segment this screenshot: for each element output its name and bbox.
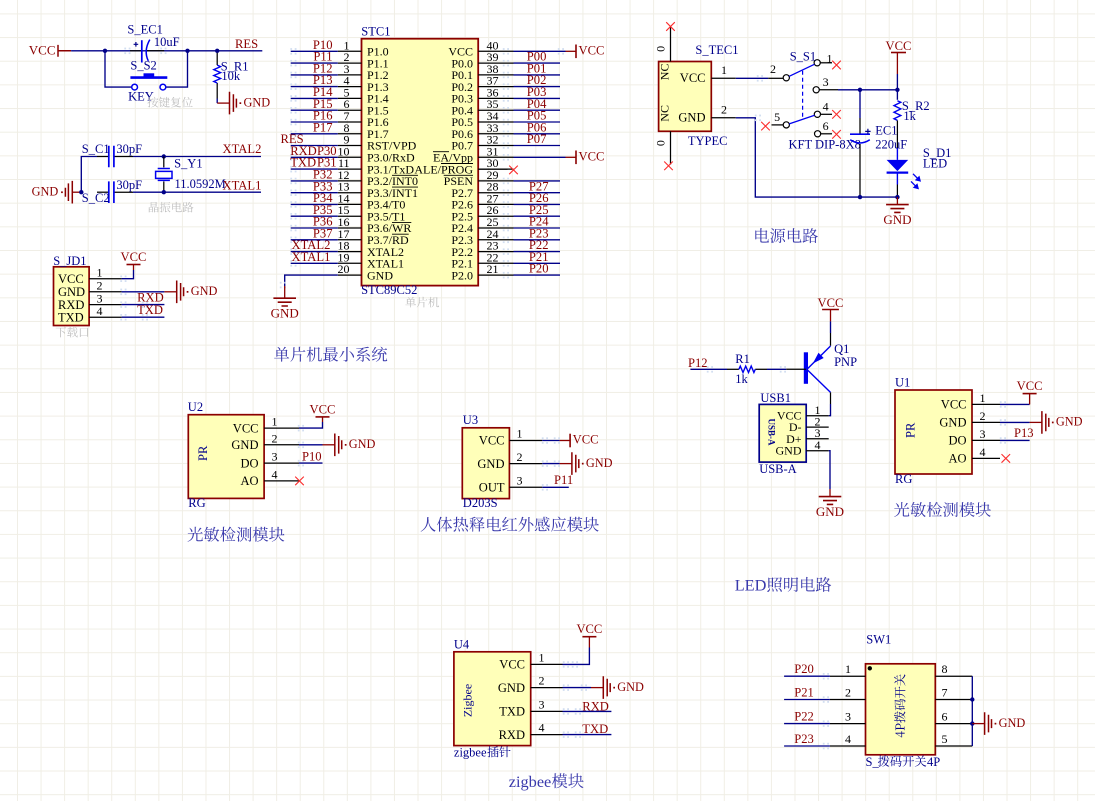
- svg-text:30pF: 30pF: [116, 178, 142, 192]
- junction gnd/C2: [79, 190, 83, 194]
- wire pin26: [503, 213, 560, 220]
- pin 33 P0.6: [451, 121, 513, 141]
- svg-text:TXD: TXD: [58, 310, 84, 324]
- pin 1 (SW1 left): [830, 662, 866, 676]
- pin 5 P1.4: [338, 85, 389, 105]
- junction SW1 pin7: [970, 697, 974, 701]
- ground GND (below S_R1): [217, 92, 270, 115]
- connector S_TEC1 TYPEC body: [659, 62, 712, 132]
- svg-text:10k: 10k: [221, 69, 241, 83]
- pin 1 VCC: [58, 266, 122, 286]
- svg-text:2: 2: [721, 103, 727, 117]
- pin 2 GND (TEC): [678, 103, 735, 125]
- pin 1 VCC (TEC): [680, 63, 736, 85]
- svg-text:DO: DO: [948, 434, 966, 448]
- junction at cap left: [103, 49, 107, 53]
- svg-text:0: 0: [654, 46, 668, 52]
- pin 17 P3.7/RD: [338, 227, 410, 247]
- pin 4 RXD (U4): [499, 721, 563, 742]
- svg-text:U3: U3: [463, 413, 478, 427]
- svg-text:3: 3: [539, 697, 545, 711]
- wire TEC pin1 to switch pole: [736, 75, 784, 82]
- pin 3 P1.2: [338, 62, 389, 82]
- wire to pin 17: [290, 237, 338, 244]
- svg-text:R1: R1: [735, 352, 750, 366]
- wire U3 pin3 P11: [542, 484, 569, 490]
- pin 28 P2.7: [451, 180, 513, 200]
- power port VCC (S_JD1): [121, 250, 147, 270]
- junction crystal bottom: [162, 190, 166, 194]
- power port VCC (pin40): [566, 44, 605, 59]
- wire pin24: [503, 237, 560, 244]
- pin 13 P3.3/INT1: [338, 180, 419, 200]
- svg-text:S_S1: S_S1: [790, 49, 816, 63]
- pin 4 AO (U1): [948, 445, 1000, 466]
- wire pin21: [503, 272, 560, 279]
- svg-text:GND: GND: [1056, 415, 1083, 429]
- pin 7 (SW1 right): [935, 686, 972, 700]
- svg-text:EC1: EC1: [875, 124, 897, 138]
- svg-text:1k: 1k: [903, 109, 916, 123]
- svg-text:6: 6: [823, 119, 829, 133]
- wire TEC pin2 to bottom rail: [736, 115, 898, 198]
- wire SW1 right bus: [971, 676, 973, 746]
- wire to pin 7: [290, 119, 338, 126]
- wire VCC to RES net: [71, 50, 262, 52]
- grey note 晶振电路: [149, 202, 194, 213]
- wire pin28: [503, 190, 560, 197]
- dip switch SW1 body: [866, 664, 936, 755]
- wire to pin 14: [290, 201, 338, 208]
- pin 2 D- (USB1): [789, 415, 829, 435]
- switch S_S2 KEY pushbutton: [130, 73, 167, 90]
- pin 40 VCC: [448, 38, 513, 58]
- switch pin 6 stub + X: [820, 119, 841, 138]
- grey note 按键复位: [148, 97, 193, 108]
- svg-text:VCC: VCC: [1017, 379, 1043, 393]
- pin 21 P2.0: [451, 262, 513, 282]
- ground GND (U1): [1030, 411, 1083, 434]
- svg-text:VCC: VCC: [121, 250, 147, 264]
- svg-text:GND: GND: [939, 416, 966, 430]
- svg-text:GND: GND: [477, 457, 504, 471]
- wire to pin 5: [290, 95, 338, 102]
- svg-text:1: 1: [517, 427, 523, 441]
- wire switch to cap-right riser: [166, 51, 188, 87]
- svg-text:GND: GND: [498, 681, 525, 695]
- svg-text:Q1: Q1: [834, 342, 849, 356]
- pin NC top (0): [654, 22, 675, 80]
- svg-text:GND: GND: [883, 212, 911, 227]
- wire to pin 18: [290, 248, 338, 255]
- ground GND (U2): [323, 434, 376, 457]
- crystal S_Y1 11.0592M: [156, 157, 172, 193]
- svg-text:4: 4: [539, 721, 545, 735]
- svg-text:S_C1: S_C1: [82, 142, 110, 156]
- svg-text:KFT DIP-8X8: KFT DIP-8X8: [789, 138, 861, 152]
- svg-text:220uF: 220uF: [875, 137, 907, 151]
- rotated text 4P拨码开关 (SW1): [894, 674, 905, 737]
- capacitor S_C2 30pF: [97, 181, 133, 203]
- svg-text:5: 5: [774, 110, 780, 124]
- svg-text:GND: GND: [367, 268, 393, 282]
- svg-text:XTAL2: XTAL2: [223, 142, 262, 156]
- svg-text:3: 3: [272, 450, 278, 464]
- svg-text:GND: GND: [231, 438, 258, 452]
- pin 30 ALE/PROG: [414, 156, 513, 176]
- wire pin2 to GND: [120, 289, 164, 295]
- svg-text:7: 7: [942, 686, 948, 700]
- pin 2 GND (U2): [231, 431, 299, 452]
- wire U1 pin2 to GND: [1000, 419, 1030, 425]
- pin 27 P2.6: [451, 191, 513, 211]
- wire P21: [784, 696, 830, 703]
- svg-text:P22: P22: [794, 709, 814, 723]
- svg-text:6: 6: [942, 710, 948, 724]
- ground GND (USB1): [816, 497, 844, 519]
- svg-text:4: 4: [845, 732, 851, 746]
- svg-text:8: 8: [942, 662, 948, 676]
- wire pin29 PSEN: [503, 178, 560, 185]
- switch S_S1 KFT DIP-8X8: [783, 60, 821, 137]
- svg-text:STC89C52: STC89C52: [361, 283, 417, 297]
- pin 2 GND (U4): [498, 674, 563, 695]
- svg-text:S_TEC1: S_TEC1: [695, 43, 738, 57]
- wire Q1 collector to USB1 pin1: [829, 404, 831, 416]
- wire pin36: [503, 95, 560, 102]
- ground GND (U3): [560, 452, 613, 475]
- wire pin31 to VCC: [503, 154, 566, 161]
- svg-text:2: 2: [770, 62, 776, 76]
- pin 34 P0.5: [451, 109, 513, 129]
- pin 1 VCC (U2): [233, 415, 299, 436]
- svg-text:4: 4: [272, 467, 278, 481]
- grey note 单片机: [405, 297, 439, 308]
- wire U4 pin1 to VCC: [563, 648, 590, 668]
- section title 光敏检测模块 (right): [894, 502, 991, 517]
- ground GND (SW1): [972, 712, 1025, 735]
- svg-text:GND: GND: [244, 95, 271, 109]
- svg-text:GND: GND: [678, 111, 705, 125]
- wire U2 pin1 to VCC: [298, 422, 323, 431]
- wire pin22: [503, 260, 560, 266]
- svg-text:20: 20: [338, 262, 350, 276]
- pin 7 P1.6: [338, 109, 389, 129]
- pin 8 P1.7: [338, 121, 389, 141]
- pin 2 GND (U3): [477, 450, 542, 471]
- svg-text:VCC: VCC: [941, 398, 967, 412]
- pin 1 VCC (U3): [479, 427, 543, 448]
- pin 4 P1.3: [338, 74, 389, 94]
- wire P12 to R1: [690, 366, 727, 372]
- svg-text:TXD: TXD: [137, 303, 163, 317]
- svg-text:GND: GND: [191, 284, 218, 298]
- svg-text:VCC: VCC: [479, 434, 505, 448]
- wire pin3 RXD: [120, 301, 164, 308]
- pin 2 (SW1 left): [830, 686, 866, 700]
- grey note 下载口: [56, 327, 89, 338]
- pin 35 P0.4: [451, 97, 513, 117]
- wire left riser C1-C2: [81, 157, 97, 193]
- pin 15 P3.5/T1: [338, 203, 406, 223]
- pin 3 TXD (U4): [499, 697, 562, 718]
- switch pin 3 wire to rail: [819, 75, 898, 90]
- svg-text:Zigbee: Zigbee: [461, 684, 475, 717]
- svg-text:3: 3: [980, 427, 986, 441]
- svg-text:1: 1: [539, 650, 545, 664]
- svg-text:RXD: RXD: [499, 728, 525, 742]
- pin 19 XTAL1: [338, 250, 405, 270]
- svg-text:P23: P23: [794, 732, 814, 746]
- pin 6 (SW1 right): [935, 710, 972, 724]
- svg-text:XTAL1: XTAL1: [223, 179, 262, 193]
- section title 电源电路: [755, 228, 818, 243]
- no-connect X (pin30): [478, 166, 518, 175]
- wire to pin 9: [290, 142, 338, 149]
- junction bottom EC1: [858, 195, 862, 199]
- wire P23: [784, 743, 830, 750]
- wire U1 pin3 P13: [1000, 437, 1030, 443]
- pin 11 P3.1/TxD: [338, 156, 415, 176]
- svg-text:P11: P11: [554, 473, 573, 487]
- svg-text:2: 2: [272, 431, 278, 445]
- junction EC1 top: [858, 88, 862, 92]
- svg-text:USB-A: USB-A: [759, 462, 797, 476]
- pin NC bottom (0): [654, 105, 673, 170]
- svg-text:P21: P21: [794, 685, 814, 699]
- section title 人体热释电红外感应模块: [421, 517, 599, 532]
- svg-text:30pF: 30pF: [116, 142, 142, 156]
- svg-text:U1: U1: [895, 375, 910, 389]
- svg-text:P20: P20: [529, 262, 549, 276]
- pin 8 (SW1 right): [935, 662, 972, 676]
- svg-text:GND: GND: [816, 504, 844, 519]
- switch pin 1 stub + X: [820, 52, 841, 70]
- pin 3 OUT (U3): [479, 474, 543, 495]
- pin 32 P0.7: [451, 133, 513, 153]
- pin 1 VCC (U1): [941, 391, 1000, 412]
- svg-text:P10: P10: [302, 450, 322, 464]
- wire pin25: [503, 225, 560, 232]
- wire pin23: [503, 248, 560, 255]
- pin 25 P2.4: [451, 215, 513, 235]
- wire R2 to LED: [896, 121, 898, 160]
- pin 1 VCC (U4): [499, 650, 562, 671]
- power port VCC (reset circuit): [29, 42, 71, 57]
- svg-text:5: 5: [942, 732, 948, 746]
- switch pin 4 stub + X: [820, 99, 841, 118]
- svg-text:VCC: VCC: [29, 42, 56, 57]
- ground GND (power circuit): [883, 197, 911, 227]
- wire U2 pin2 to GND: [298, 442, 323, 448]
- pin 6 P1.5: [338, 97, 389, 117]
- svg-text:VCC: VCC: [680, 71, 706, 85]
- svg-text:VCC: VCC: [233, 421, 259, 435]
- svg-text:RG: RG: [895, 472, 912, 486]
- svg-text:10uF: 10uF: [154, 35, 180, 49]
- svg-text:VCC: VCC: [579, 150, 605, 164]
- svg-text:PNP: PNP: [834, 355, 857, 369]
- pin 1 VCC (USB1): [777, 403, 829, 423]
- pin 36 P0.3: [451, 85, 513, 105]
- power port VCC (U2): [310, 402, 336, 422]
- svg-text:VCC: VCC: [58, 272, 84, 286]
- pin 9 RST/VPD: [338, 133, 417, 153]
- power port VCC (U1): [1017, 379, 1043, 404]
- ground GND (crystal circuit): [32, 181, 82, 204]
- pin 39 P0.0: [451, 50, 513, 70]
- svg-text:VCC: VCC: [576, 622, 602, 636]
- svg-text:zigbee: zigbee: [454, 745, 487, 759]
- svg-text:P17: P17: [313, 120, 333, 134]
- svg-text:2: 2: [845, 686, 851, 700]
- connector USB1 USB-A body: [759, 404, 806, 462]
- pin 37 P0.2: [451, 74, 513, 94]
- svg-text:GND: GND: [776, 444, 802, 458]
- wire U4 pin4 TXD: [563, 731, 612, 737]
- svg-text:OUT: OUT: [479, 481, 505, 495]
- section title 单片机最小系统: [274, 347, 387, 362]
- wire pin34: [503, 119, 560, 126]
- svg-text:4: 4: [97, 304, 103, 318]
- wire pin27: [503, 201, 560, 208]
- pin 1 P1.0: [338, 38, 389, 58]
- pin 4 TXD: [58, 304, 122, 324]
- wire pin35: [503, 107, 560, 114]
- svg-text:4P: 4P: [927, 755, 940, 769]
- svg-text:1: 1: [845, 662, 851, 676]
- svg-text:S_S2: S_S2: [130, 59, 156, 73]
- svg-text:VCC: VCC: [310, 402, 336, 416]
- svg-text:PR: PR: [196, 445, 210, 461]
- svg-text:LED: LED: [923, 156, 947, 170]
- wire U2 pin3 P10: [298, 460, 323, 467]
- wire U3 pin2 to GND: [542, 460, 560, 467]
- no-connect X (U1 pin4): [1002, 454, 1011, 463]
- wire pin4 TXD: [120, 314, 164, 321]
- wire XTAL1: [133, 191, 261, 193]
- junction SW1 pin6: [970, 721, 974, 725]
- no-connect X (U2 pin4): [295, 477, 304, 486]
- power port VCC (LED circuit): [818, 296, 844, 321]
- svg-text:AO: AO: [240, 474, 258, 488]
- pin 20 GND: [338, 262, 394, 282]
- wire VCC to R2: [896, 74, 898, 100]
- svg-text:1: 1: [827, 52, 833, 66]
- wire to pin 19: [290, 260, 338, 266]
- power port VCC (U3): [560, 433, 599, 448]
- ground GND (U4): [591, 676, 644, 699]
- pin 12 P3.2/INT0: [338, 168, 419, 188]
- wire USB1 pin4 to GND: [829, 451, 830, 497]
- svg-text:VCC: VCC: [499, 658, 525, 672]
- pin 3 RXD: [58, 291, 122, 311]
- svg-text:AO: AO: [948, 452, 966, 466]
- wire pin37: [503, 83, 560, 90]
- module U3 body: [462, 428, 509, 499]
- pin 2 GND: [58, 279, 122, 299]
- svg-text:4: 4: [823, 99, 829, 113]
- svg-text:P20: P20: [794, 662, 814, 676]
- pin 2 GND (U1): [939, 409, 1000, 430]
- svg-text:RXD: RXD: [582, 700, 609, 714]
- svg-text:U2: U2: [188, 400, 203, 414]
- svg-text:DO: DO: [240, 456, 258, 470]
- resistor S_R2 1k: [894, 101, 901, 121]
- svg-text:2: 2: [980, 409, 986, 423]
- svg-text:SW1: SW1: [866, 633, 891, 647]
- pin 3 DO (U1): [948, 427, 1000, 448]
- svg-text:3: 3: [823, 75, 829, 89]
- wire VCC to Q1 emitter: [830, 321, 832, 333]
- pin 29 PSEN: [444, 168, 514, 188]
- svg-text:1: 1: [272, 415, 278, 429]
- wire to pin 11: [290, 166, 338, 173]
- svg-text:1k: 1k: [735, 372, 748, 386]
- pin 5 (SW1 right): [935, 732, 972, 746]
- svg-text:TXD: TXD: [582, 722, 608, 736]
- pin 18 XTAL2: [338, 239, 405, 259]
- junction at resistor top: [215, 49, 219, 53]
- wire U3 pin1 to VCC: [542, 437, 560, 444]
- wire to pin 6: [290, 107, 338, 114]
- svg-text:11.0592M: 11.0592M: [175, 177, 226, 191]
- pin 22 P2.1: [451, 250, 513, 270]
- wire P20: [784, 673, 830, 680]
- svg-text:GND: GND: [999, 716, 1026, 730]
- svg-text:GND: GND: [617, 680, 644, 694]
- pin 38 P0.1: [451, 62, 513, 82]
- svg-text:LED: LED: [735, 576, 767, 595]
- svg-text:NC: NC: [658, 105, 672, 122]
- svg-text:USB-A: USB-A: [767, 418, 777, 446]
- svg-text:S_Y1: S_Y1: [174, 157, 202, 171]
- svg-text:4: 4: [815, 438, 821, 452]
- svg-text:TXD: TXD: [290, 156, 316, 170]
- pin 10 P3.0/RxD: [338, 144, 416, 164]
- svg-text:3: 3: [845, 710, 851, 724]
- svg-text:2: 2: [517, 450, 523, 464]
- svg-text:P12: P12: [688, 356, 708, 370]
- module U4 body: [454, 652, 531, 746]
- power port VCC (pin31): [566, 150, 605, 165]
- module U1 body: [895, 390, 972, 474]
- svg-text:STC1: STC1: [361, 25, 390, 39]
- svg-text:1: 1: [980, 391, 986, 405]
- LED S_D1: [887, 160, 921, 197]
- wire U4 pin3 RXD: [563, 708, 612, 715]
- pin 3 DO (U2): [240, 450, 299, 471]
- pin 3 (SW1 left): [830, 710, 866, 724]
- junction at cap right: [185, 49, 189, 53]
- wire to pin 16: [290, 225, 338, 232]
- svg-text:PR: PR: [904, 422, 918, 438]
- svg-text:U4: U4: [454, 637, 470, 651]
- transistor Q1 PNP: [806, 333, 831, 404]
- capacitor S_EC1 10uF electrolytic: [124, 40, 166, 63]
- wire to pin 3: [290, 72, 338, 79]
- svg-text:XTAL1: XTAL1: [292, 250, 331, 264]
- svg-text:21: 21: [487, 262, 499, 276]
- wire to pin 4: [290, 83, 338, 90]
- pin 4 (SW1 left): [830, 732, 866, 746]
- wire to pin 15: [290, 213, 338, 220]
- svg-text:P07: P07: [527, 132, 547, 146]
- pin 31 EA/Vpp: [433, 144, 514, 164]
- pin 14 P3.4/T0: [338, 191, 406, 211]
- svg-text:0: 0: [654, 140, 668, 146]
- svg-text:GND: GND: [32, 184, 59, 198]
